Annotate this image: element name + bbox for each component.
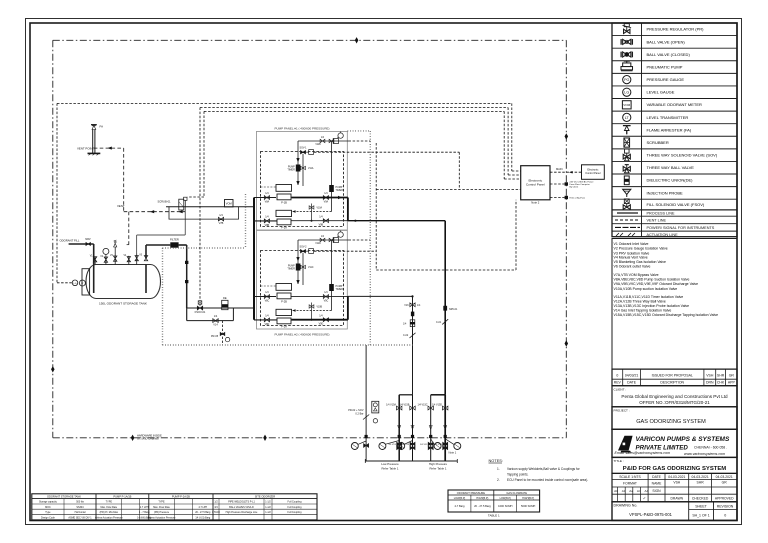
svg-text:FSOV-01: FSOV-01: [195, 310, 206, 314]
vent dashed drop: [123, 148, 125, 212]
cabinet hatch top stub: [348, 130, 371, 132]
probe isolation valves V15D: [434, 442, 447, 449]
battery limit right chain: [565, 40, 567, 438]
svg-text:VENT: VENT: [117, 204, 125, 208]
svg-text:PUMP PANEL #1 ( 400/600 PRESSU: PUMP PANEL #1 ( 400/600 PRESSURE): [275, 127, 330, 131]
svg-text:V14 Gas Inlet Tapping Isolatio: V14 Gas Inlet Tapping Isolation Valve: [614, 308, 672, 312]
svg-text:VOM: VOM: [623, 103, 630, 107]
panel 1 pump dashed stub: [261, 186, 277, 188]
panel 1 PR valve: [329, 139, 334, 142]
drop pipe V15D: [444, 395, 446, 461]
panel 2 timer branch: [297, 240, 299, 284]
pressure reg hat: [184, 197, 187, 207]
panel 1 timer label: [287, 165, 295, 171]
svg-text:TYPE: TYPE: [106, 501, 113, 504]
svg-text:V11C: V11C: [308, 267, 314, 269]
svg-text:1/4 V13: 1/4 V13: [420, 444, 428, 446]
cabinet hatch step v: [245, 194, 247, 248]
legend icon lg: [623, 88, 631, 96]
HP discharge header: [348, 220, 445, 222]
svg-text:V9D: V9D: [319, 323, 324, 326]
legend VENT LINE: [615, 219, 667, 223]
svg-text:Airless Actuation Pressure: Airless Actuation Pressure: [148, 517, 177, 520]
svg-text:1/4 V13: 1/4 V13: [402, 444, 410, 446]
tank nozzle valve V4: [127, 245, 131, 265]
panel 2 relief vent dashed: [349, 239, 371, 241]
blanket gas line: [137, 235, 186, 254]
valve list box: [612, 239, 737, 370]
panel 2 inner dashed box: [261, 251, 344, 326]
svg-text:20 - 27.5 Barg: 20 - 27.5 Barg: [474, 504, 491, 508]
svg-text:A1: A1: [622, 489, 626, 493]
LP header dot: [411, 295, 413, 297]
power source text: [570, 181, 594, 189]
svg-text:PRESSURE REGULATOR (PR): PRESSURE REGULATOR (PR): [647, 27, 705, 32]
tank dip tube 1: [93, 265, 95, 294]
panel 1 valve V11b: [301, 166, 314, 170]
svg-text:PNEUMATIC PUMP: PNEUMATIC PUMP: [647, 64, 683, 69]
LP valve V16: [404, 303, 421, 307]
discharge P-1A line: [291, 220, 348, 222]
svg-text:PROJECT :: PROJECT :: [614, 408, 630, 412]
company name: [615, 436, 730, 456]
legend PROCESS LINE: [617, 212, 675, 216]
svg-text:Full Coupling: Full Coupling: [288, 511, 303, 514]
vent dashed to stack: [94, 147, 124, 149]
legend icon twbv: [623, 165, 630, 173]
ECU main line: [550, 167, 582, 173]
limit diamond top: [355, 37, 359, 43]
panel 1 relief line: [298, 140, 349, 142]
note 2 text: [497, 478, 588, 482]
svg-text:ODORANT FILL: ODORANT FILL: [60, 239, 80, 243]
svg-text:www.variconsystems.com: www.variconsystems.com: [684, 452, 725, 456]
discharge P-2B line: [291, 295, 348, 297]
svg-text:DRAWING No.: DRAWING No.: [614, 503, 638, 507]
injection probe circle V15B: [398, 441, 413, 450]
project text: [614, 408, 707, 425]
actuation tap line: [365, 345, 367, 461]
remote control panel box: [582, 165, 605, 180]
svg-text:CHK: CHK: [717, 381, 725, 385]
signal SOV-1 to ECU: [314, 152, 459, 189]
svg-text:V1 Odorant Inlet Valve: V1 Odorant Inlet Valve: [614, 242, 649, 246]
svg-text:Refer Table 1: Refer Table 1: [429, 466, 446, 470]
svg-text:High Pressure: High Pressure: [429, 462, 448, 466]
svg-text:DIELECTRIC UNION(DE): DIELECTRIC UNION(DE): [647, 178, 694, 183]
svg-text:1/4 V15A: 1/4 V15A: [386, 403, 396, 406]
svg-text:V7B: V7B: [219, 222, 224, 225]
svg-text:PUMP PANEL #2 ( 400/600 PRESSU: PUMP PANEL #2 ( 400/600 PRESSURE): [275, 332, 330, 336]
svg-text:Horizontal: Horizontal: [75, 511, 86, 514]
svg-text:PIPE WELDOLETS P-L1: PIPE WELDOLETS P-L1: [228, 501, 255, 504]
valve V8 lower panel 2: [264, 314, 269, 326]
svg-text:SH_1 OF 1: SH_1 OF 1: [692, 513, 709, 517]
injection probe circle V15A: [379, 441, 399, 450]
suction line pump 1B: [254, 197, 276, 199]
valve V9 upper panel 2: [323, 291, 328, 303]
svg-text:V8B: V8B: [265, 224, 270, 227]
svg-text:DE: DE: [223, 296, 227, 300]
svg-text:Max. Flow Rate: Max. Flow Rate: [100, 506, 117, 509]
svg-text:500 lits: 500 lits: [76, 501, 84, 504]
limit diamond bottom-2: [263, 435, 267, 441]
svg-text:1 TACK: 1 TACK: [212, 511, 221, 514]
svg-text:POWER/ SIGNAL FOR INSTRUMENTS: POWER/ SIGNAL FOR INSTRUMENTS: [647, 226, 715, 230]
tank shell: [86, 265, 161, 299]
svg-text:SOV-2: SOV-2: [299, 245, 307, 248]
legend icon pump: [621, 61, 633, 71]
svg-text:1.: 1.: [497, 467, 500, 471]
svg-text:1/4 V15D: 1/4 V15D: [432, 403, 442, 406]
PR-05 tapping line: [222, 321, 224, 345]
union mark 2: [185, 280, 188, 283]
svg-text:PG: PG: [624, 78, 629, 82]
svg-text:GR: GR: [729, 373, 735, 377]
svg-text:REV: REV: [614, 381, 622, 385]
flow arrow V15C: [429, 425, 432, 429]
svg-text:P-1B: P-1B: [281, 201, 287, 205]
company box: [612, 429, 737, 457]
svg-text:V13A,V13B,V13C Injection Prob: V13A,V13B,V13C Injection Probe Isolation…: [614, 304, 690, 308]
legend POWER/SIGNAL: [615, 226, 715, 230]
drop pipe V15A: [398, 395, 400, 461]
legend icon ip: [623, 189, 631, 197]
svg-text:V11A,V11B,V11C,V11D Timer Iso: V11A,V11B,V11C,V11D Timer Isolation Valv…: [614, 295, 684, 299]
panel 1 interstage line: [311, 204, 313, 221]
svg-text:REVISION: REVISION: [717, 504, 734, 508]
vent arrow 1: [150, 210, 154, 213]
svg-text:CLIENT :: CLIENT :: [614, 388, 627, 392]
svg-text:V10A,V10B Pump suction Isolati: V10A,V10B Pump suction Isolation Valve: [614, 287, 678, 291]
equipment table grid: [32, 494, 317, 520]
svg-text:V11B: V11B: [315, 144, 321, 146]
svg-text:OFFER NO.:OFR/0318/MTG/20-21: OFFER NO.:OFR/0318/MTG/20-21: [639, 400, 710, 405]
suction header: [253, 198, 255, 320]
signal panel1 to ECU: [376, 189, 521, 191]
signal A left drop to LG: [57, 103, 72, 282]
panel 1 sov drop: [302, 154, 304, 186]
panel 2 timer arrow2: [297, 280, 300, 283]
svg-text:BALL VALVE (OPEN): BALL VALVE (OPEN): [647, 39, 686, 44]
svg-text:TABLE 1: TABLE 1: [488, 513, 500, 517]
junction dot suction header: [253, 307, 255, 309]
svg-text:V11D: V11D: [315, 243, 321, 245]
svg-text:04/03/21: 04/03/21: [625, 373, 639, 377]
svg-text:A3: A3: [637, 489, 641, 493]
flow arrow V15D: [444, 425, 447, 429]
HP line break: [436, 319, 448, 324]
panel 2 solenoid SOV: [299, 245, 313, 253]
svg-text:TIMER: TIMER: [336, 189, 344, 192]
legend ACTUATION LINE: [616, 233, 678, 237]
legend icon fsov: [623, 199, 630, 209]
svg-text:THREE WAY BALL VALVE: THREE WAY BALL VALVE: [647, 165, 695, 170]
vent arrow 2: [178, 210, 182, 213]
svg-text:Full Coupling: Full Coupling: [288, 501, 303, 504]
signal line A horizontal: [57, 102, 512, 104]
svg-text:LOW(B.P): LOW(B.P): [500, 497, 512, 500]
svg-text:V5 Blanketing Gas Isolation Va: V5 Blanketing Gas Isolation Valve: [614, 260, 667, 264]
ECU panel box: [521, 166, 550, 200]
svg-text:Refer Table 1: Refer Table 1: [381, 466, 398, 470]
svg-text:V8D: V8D: [265, 323, 270, 326]
svg-text:PROCESS LINE: PROCESS LINE: [647, 212, 676, 216]
svg-text:SCRUB-01: SCRUB-01: [158, 199, 172, 203]
level gauge circles: [72, 280, 85, 286]
panel 1 valve V10: [309, 206, 322, 210]
vent header dashed: [124, 211, 186, 213]
vent arrow at stack: [107, 147, 111, 150]
vom bypass: [169, 207, 239, 219]
svg-text:ODORANT STORAGE TANK: ODORANT STORAGE TANK: [47, 495, 81, 499]
filter: [170, 238, 179, 248]
tank nozzle valve V3 with PRV: [114, 240, 117, 265]
title text: [614, 459, 727, 472]
svg-text:1/4 V13: 1/4 V13: [388, 444, 396, 446]
ECU signal line 2: [550, 196, 568, 199]
panel 2 timer label 2: [336, 285, 344, 291]
svg-text:DRN: DRN: [706, 381, 714, 385]
probe isolation valves V15C: [420, 442, 433, 449]
panel 1 inner dashed box: [261, 152, 344, 227]
client text: [614, 388, 729, 406]
svg-text:ODORANT PRESSURE: ODORANT PRESSURE: [457, 491, 485, 495]
svg-text:PUMP P-2A/2B: PUMP P-2A/2B: [172, 495, 190, 499]
panel 2 sov drop: [302, 253, 304, 285]
pressure regulator PR-05: [211, 332, 230, 341]
svg-text:Max. Flow Rate: Max. Flow Rate: [153, 506, 170, 509]
signal line B down to ECU: [508, 108, 521, 176]
limit diamond right-2: [565, 340, 569, 346]
panel 1 timer branch: [297, 141, 299, 185]
panel 2 interstage line: [311, 303, 313, 320]
panel 1 right branch: [331, 141, 333, 212]
svg-text:1/4: 1/4: [214, 315, 218, 318]
svg-text:V14: V14: [213, 324, 218, 327]
svg-text:LG: LG: [74, 283, 77, 285]
discharge flow arrow: [338, 196, 342, 199]
svg-text:1-1/2: 1-1/2: [265, 506, 271, 509]
svg-text:VSH: VSH: [706, 373, 714, 377]
HP header dot: [354, 220, 356, 222]
svg-text:V15A,V15B,V15C,V15D Odorant Di: V15A,V15B,V15C,V15D Odorant Discharge Ta…: [614, 313, 719, 317]
svg-text:MAIN: MAIN: [556, 167, 563, 171]
actuation probe circle: [351, 441, 366, 450]
legend row dividers: [612, 23, 737, 237]
svg-text:PRESSURE GAUGE: PRESSURE GAUGE: [647, 77, 685, 82]
svg-text:04-03-2021: 04-03-2021: [668, 475, 685, 479]
panel 1 timer label 2: [336, 186, 344, 192]
union mark 1: [185, 261, 188, 264]
actuation line break: [363, 415, 369, 420]
svg-text:VARIABLE ODORANT METER: VARIABLE ODORANT METER: [647, 102, 703, 107]
panel 1 gauge PI: [333, 132, 343, 144]
cabinet hatch step h: [163, 247, 246, 249]
tank nozzle V6 outlet: [144, 256, 147, 261]
vent stack pipe: [91, 125, 97, 154]
svg-text:Airless Actuation Pressure: Airless Actuation Pressure: [95, 517, 124, 520]
injection probe circle V15D: [445, 439, 461, 450]
svg-text:ECU at By-Pass: ECU at By-Pass: [570, 196, 586, 199]
svg-text:1 - 7 Barg: 1 - 7 Barg: [139, 511, 150, 514]
flow arrow V15A: [398, 425, 401, 429]
actuation PR label: [348, 409, 364, 415]
svg-text:V9C: V9C: [324, 300, 329, 303]
svg-text:THREE WAY SOLENOID VALVE (SOV): THREE WAY SOLENOID VALVE (SOV): [647, 153, 718, 158]
svg-text:FA: FA: [100, 125, 104, 129]
valve V8 lower panel 1: [264, 215, 269, 227]
check valve NRV: [85, 237, 91, 246]
drawing no text: [614, 503, 734, 517]
svg-text:4.7 LPH: 4.7 LPH: [198, 506, 207, 509]
svg-text:VENT POINT: VENT POINT: [77, 146, 94, 150]
legend icon bvo: [621, 39, 632, 45]
revision table text: [614, 373, 736, 384]
variable odorant meter VOM: [225, 200, 234, 207]
panel 1 interstage dot: [311, 220, 313, 222]
svg-text:2.: 2.: [497, 478, 500, 482]
equipment table text: [39, 495, 302, 520]
LP discharge header: [348, 295, 413, 297]
discharge P-2A rise: [347, 296, 349, 319]
limit diamond right-1: [565, 133, 569, 139]
svg-text:DESCRIPTION: DESCRIPTION: [660, 381, 684, 385]
svg-text:V8A: V8A: [265, 201, 270, 204]
svg-text:Note 2: Note 2: [531, 201, 540, 205]
svg-text:Varicon supply Weldolets,Ball: Varicon supply Weldolets,Ball valve & Co…: [507, 467, 581, 471]
svg-text:V12A,V12B Three Way Ball Valve: V12A,V12B Three Way Ball Valve: [614, 299, 666, 303]
svg-text:C-02: C-02: [403, 334, 409, 337]
valve V9 lower panel 2: [319, 314, 329, 325]
signal line A down to ECU: [512, 103, 521, 171]
svg-text:TIMER: TIMER: [287, 168, 295, 171]
legend icon sov: [623, 149, 630, 161]
svg-text:1/4: 1/4: [219, 214, 223, 217]
svg-text:CHENNAI - 600 058 .: CHENNAI - 600 058 .: [694, 445, 727, 449]
svg-text:APPROVED: APPROVED: [715, 496, 734, 500]
cabinet hatch right: [369, 131, 371, 345]
panel 2 valve V11b: [301, 265, 314, 269]
svg-text:P&ID FOR GAS ODORIZING SYSTEM: P&ID FOR GAS ODORIZING SYSTEM: [623, 466, 727, 472]
svg-text:ASME SEC VIII DIV 1: ASME SEC VIII DIV 1: [68, 517, 92, 520]
HP check valve NRV-01: [443, 306, 458, 311]
svg-text:ISSUED FOR PROPOSAL: ISSUED FOR PROPOSAL: [652, 373, 693, 377]
suction run line: [187, 307, 254, 309]
limit diamond bottom-1: [131, 435, 135, 441]
svg-text:Penta Global Engineering and C: Penta Global Engineering and Constructio…: [621, 394, 728, 399]
panel 2 pump timer solenoid: [296, 264, 301, 271]
svg-text:V9B: V9B: [319, 224, 324, 227]
panel 2 return arrow line: [292, 309, 332, 312]
valve V7B: [218, 214, 223, 225]
pump panel 1 enclosure: [257, 131, 348, 230]
tank dip tube 2: [145, 265, 147, 294]
svg-text:P-2A: P-2A: [281, 324, 287, 328]
svg-text:Control Panel: Control Panel: [585, 172, 601, 175]
panel 2 right branch: [331, 240, 333, 311]
tapping valve V15A: [386, 403, 402, 410]
LP branch header: [399, 394, 412, 396]
svg-text:V10A: V10A: [317, 207, 323, 210]
outlet to drop line: [179, 244, 187, 246]
legend icon scrub: [624, 138, 630, 147]
actuation gauge circle: [373, 419, 377, 423]
panel 1 timer arrow2: [297, 181, 300, 184]
svg-text:GI, SKID CABINET: GI, SKID CABINET: [137, 437, 160, 441]
svg-text:V16: V16: [404, 304, 409, 307]
svg-text:NAME: NAME: [652, 482, 662, 486]
signal panel2 to ECU: [376, 200, 516, 270]
limit crossing square V15A: [398, 435, 401, 438]
svg-text:1000 SCMH: 1000 SCMH: [498, 504, 512, 508]
actuation PR box: [372, 401, 379, 413]
battery limit top chain: [53, 39, 567, 41]
svg-text:Type: Type: [45, 511, 51, 514]
pump P-1B body: [276, 185, 292, 200]
project box: [612, 407, 737, 430]
svg-text:1/4 V13: 1/4 V13: [434, 444, 442, 446]
svg-text:Control Panel: Control Panel: [526, 182, 545, 186]
svg-text:C-01: C-01: [436, 321, 442, 324]
notes heading: [489, 458, 503, 463]
format grid text: [614, 475, 734, 501]
actuation crossing square: [365, 435, 368, 438]
varicon logo: [618, 436, 633, 453]
svg-text:1/4 V15B: 1/4 V15B: [399, 403, 409, 406]
panel 2 pump dashed stub: [261, 285, 277, 287]
flame arrester FA: [92, 125, 103, 130]
discharge P-2A thick: [292, 319, 348, 321]
cabinet hatch bottom: [163, 344, 414, 346]
limit crossing square V15D: [444, 435, 447, 438]
svg-text:Low Pressure: Low Pressure: [381, 462, 399, 466]
suction line pump 2A: [254, 319, 277, 321]
signal B drop to FSOV: [199, 108, 201, 301]
panel 1 relief vent dashed: [349, 140, 371, 142]
svg-text:V7A,V7B VOM Bypass Valve: V7A,V7B VOM Bypass Valve: [614, 273, 659, 277]
svg-text:MOC: MOC: [45, 506, 51, 509]
tapping valve V15D: [432, 403, 448, 410]
svg-text:ECU Panel to be mounted inside: ECU Panel to be mounted inside control r…: [507, 478, 588, 482]
valve V9 lower panel 1: [319, 215, 329, 226]
svg-text:SHR: SHR: [717, 373, 725, 377]
pump panel 2 enclosure: [257, 230, 348, 329]
signal SOV-2 link: [314, 250, 376, 252]
vom suction line: [166, 206, 254, 208]
panel 2 PR valve: [329, 238, 334, 241]
cabinet hatch left: [162, 248, 164, 345]
vent riser from PRV: [128, 212, 130, 245]
svg-text:V6 Odorant outlet Valve: V6 Odorant outlet Valve: [614, 264, 651, 268]
legend icon vom: [622, 101, 631, 109]
battery limit bottom chain: [53, 437, 567, 439]
svg-text:PR-05: PR-05: [211, 335, 219, 338]
svg-text:BALL VALVE (CLOSED): BALL VALVE (CLOSED): [647, 52, 691, 57]
svg-text:14 (-0.5) Barg: 14 (-0.5) Barg: [195, 517, 210, 520]
revision table grid: [612, 369, 737, 386]
svg-text:LEVEL TRANSMITTER: LEVEL TRANSMITTER: [647, 115, 689, 120]
legend icon pg: [623, 76, 631, 84]
tapping valve V15B: [399, 403, 415, 410]
svg-text:PUMP P-1A/1B: PUMP P-1A/1B: [113, 495, 131, 499]
injection probe circle V15C: [431, 439, 441, 450]
valve V9 upper panel 1: [323, 192, 328, 204]
svg-text:0: 0: [724, 514, 726, 518]
svg-text:0: 0: [616, 373, 618, 377]
svg-text:DATE: DATE: [652, 475, 661, 479]
panel 2 interstage dot: [311, 319, 313, 321]
